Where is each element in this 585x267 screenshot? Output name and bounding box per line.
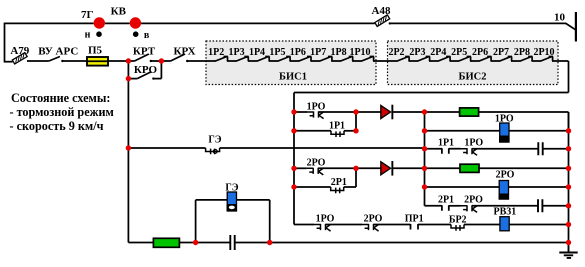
wire top row from left edge to KV button 1 xyxy=(5,22,94,24)
svg-text:ГЭ: ГЭ xyxy=(208,135,221,146)
contact 1R1 row D xyxy=(442,148,449,154)
wire row C coil to right bus xyxy=(509,130,569,132)
wire bus2 vertical xyxy=(424,112,426,206)
svg-text:БИС2: БИС2 xyxy=(459,72,487,83)
wire row D GE to bus2 xyxy=(220,147,425,149)
wire row C bus2 to coil 1RO xyxy=(425,130,500,132)
svg-text:н: н xyxy=(85,30,91,41)
wire row I left corner to resistor xyxy=(128,242,153,244)
breaker A79 xyxy=(12,53,27,64)
contact chain in BIS1 xyxy=(206,57,374,62)
lead dot after VU ARS xyxy=(61,60,63,62)
svg-text:КРТ: КРТ xyxy=(133,46,156,58)
svg-text:БИС1: БИС1 xyxy=(279,72,307,83)
svg-text:2Р7: 2Р7 xyxy=(493,47,509,58)
contact 2RO row G xyxy=(461,205,478,212)
resistor row E xyxy=(460,164,479,172)
wire row C contact to node xyxy=(344,130,356,132)
svg-text:7Г: 7Г xyxy=(81,9,94,21)
wire node vertical B-C xyxy=(355,112,357,131)
ground xyxy=(559,243,577,258)
diode VD2 xyxy=(381,162,391,175)
wire row F bus2 to coil 2RO xyxy=(425,186,500,188)
wire left edge vertical xyxy=(4,23,6,63)
svg-text:КВ: КВ xyxy=(111,6,127,18)
svg-text:ВУ АРС: ВУ АРС xyxy=(38,45,78,57)
button KV circle 1 (7G) xyxy=(94,17,105,28)
wire KRT left stub xyxy=(128,60,134,62)
wire row E diode to bus2 xyxy=(393,167,425,169)
wire row I node to right bus xyxy=(270,242,569,244)
wire GE loop top left xyxy=(196,199,228,201)
svg-text:1Р6: 1Р6 xyxy=(290,47,306,58)
wire P5 to node KRT xyxy=(108,60,129,62)
svg-text:1Р3: 1Р3 xyxy=(229,47,245,58)
svg-text:2РО: 2РО xyxy=(496,170,515,181)
wire slant into terminal 10 xyxy=(566,23,576,29)
wire row A to middle bus xyxy=(294,92,569,94)
svg-text:КРО: КРО xyxy=(134,64,158,76)
wire KRO left stub xyxy=(128,78,137,80)
capacitor row G xyxy=(538,199,542,212)
wire row D left bus to GE contact xyxy=(128,147,205,149)
switch VU ARS blade xyxy=(49,57,60,62)
block BIS2 (dotted box) xyxy=(388,41,559,85)
svg-text:1Р8: 1Р8 xyxy=(331,47,347,58)
wire row B contact to node xyxy=(319,111,357,113)
svg-text:1РО: 1РО xyxy=(307,102,326,113)
svg-text:2Р10: 2Р10 xyxy=(533,47,554,58)
svg-text:1Р1: 1Р1 xyxy=(329,121,345,132)
wire through P5 xyxy=(87,60,108,62)
svg-text:2Р1: 2Р1 xyxy=(438,195,454,206)
wire row E bus to 2RO contact xyxy=(294,167,307,169)
contact BR2 xyxy=(451,225,464,231)
lead dot after A48 xyxy=(389,22,391,24)
breaker A48 xyxy=(375,15,390,27)
wire middle bus vertical xyxy=(293,93,295,225)
svg-text:2РО: 2РО xyxy=(364,214,383,225)
svg-text:1Р7: 1Р7 xyxy=(310,47,326,58)
wire row E bus2 to resistor xyxy=(425,167,461,169)
wire node to KRX xyxy=(161,60,170,62)
wire row H to BR2 contact xyxy=(418,224,451,226)
svg-text:1РО: 1РО xyxy=(464,138,483,149)
svg-text:А48: А48 xyxy=(372,5,391,17)
contact 1RO row D xyxy=(461,148,478,155)
wire row G capacitor to right bus xyxy=(542,205,568,207)
wire left bus vertical xyxy=(127,79,129,243)
svg-text:1Р4: 1Р4 xyxy=(249,47,265,58)
svg-text:2РО: 2РО xyxy=(464,195,483,206)
wire KRO branch right vertical xyxy=(160,61,162,79)
diode VD1 xyxy=(381,105,391,118)
contact 2RO row E xyxy=(307,168,324,175)
wire row G bus2 corner to 2R1 hooks xyxy=(425,205,442,207)
svg-text:РВ31: РВ31 xyxy=(494,207,517,218)
lead dot after KRT xyxy=(150,60,152,62)
wire between BIS1 and BIS2 xyxy=(373,60,388,62)
coil 2RO xyxy=(499,181,508,200)
coil GE xyxy=(227,192,236,211)
wire row H BR2 to coil RV31 xyxy=(464,224,500,226)
wire A79 to VU ARS switch xyxy=(27,60,49,62)
lead dot after KRX xyxy=(186,60,188,62)
wire row C bus to 1R1 contact xyxy=(294,130,331,132)
contact 1RO row B xyxy=(307,111,324,118)
contact 1RO row H xyxy=(314,224,331,231)
button KV circle 2 xyxy=(130,17,141,28)
wire row D between contacts xyxy=(449,148,461,150)
svg-text:П5: П5 xyxy=(88,45,103,57)
svg-text:в: в xyxy=(144,30,150,41)
wire row D contact to capacitor xyxy=(472,148,538,150)
svg-text:КРХ: КРХ xyxy=(173,46,195,58)
svg-text:2Р6: 2Р6 xyxy=(472,47,488,58)
wire GE loop left vertical xyxy=(195,200,197,243)
wire KRO branch left vertical xyxy=(127,61,129,79)
svg-text:10: 10 xyxy=(554,12,566,24)
wire right vertical BIS2 down to row A xyxy=(568,61,570,93)
wire row I node to capacitor xyxy=(196,242,231,244)
svg-text:1Р10: 1Р10 xyxy=(349,47,370,58)
wire row D bus2 to 1R1 hooks xyxy=(425,148,442,150)
svg-text:2Р8: 2Р8 xyxy=(514,47,530,58)
wire row B diode to bus2 xyxy=(393,111,425,113)
wire row H bus corner to 1RO contact xyxy=(294,224,314,226)
contact 2RO row H xyxy=(362,224,379,231)
svg-text:2РО: 2РО xyxy=(307,157,326,168)
resistor row B xyxy=(460,108,479,116)
wire VU ARS to fuse P5 xyxy=(62,60,87,62)
svg-text:ПР1: ПР1 xyxy=(405,214,424,225)
wire row B right corner down xyxy=(568,112,570,131)
switch KRO blade xyxy=(137,72,151,79)
wire row I capacitor to node xyxy=(235,242,270,244)
svg-text:2Р2: 2Р2 xyxy=(388,47,404,58)
wire node vertical E-F xyxy=(355,168,357,187)
fuse P5 xyxy=(87,57,108,66)
switch KRT blade xyxy=(135,54,149,61)
wire row G contact to capacitor xyxy=(472,205,538,207)
wire GE loop right vertical xyxy=(269,200,271,243)
svg-text:2Р4: 2Р4 xyxy=(430,47,446,58)
wire KRX to BIS1 xyxy=(187,60,206,62)
wire row G between contacts xyxy=(449,205,461,207)
wire KRT to node xyxy=(151,60,162,62)
wire row F bus to 2R1 contact xyxy=(294,186,331,188)
wire row E resistor to right bus xyxy=(479,167,569,169)
svg-text:А79: А79 xyxy=(10,45,29,57)
wire row F coil to right bus xyxy=(509,186,569,188)
contact 2R1 row F xyxy=(331,187,344,193)
switch KRX blade xyxy=(171,54,185,61)
wire right bus vertical xyxy=(568,112,570,243)
contact GE xyxy=(206,148,220,154)
contact PR1 row H xyxy=(411,224,419,230)
wire row B resistor to right bus xyxy=(479,111,569,113)
wire row D capacitor to right bus xyxy=(543,148,569,150)
coil 1RO xyxy=(500,123,509,142)
lead dot after KRO xyxy=(152,77,154,79)
wire stub before breaker A79 xyxy=(5,61,13,63)
block BIS1 (dotted box) xyxy=(206,41,376,85)
wire top row between KV buttons xyxy=(105,22,130,24)
contact chain in BIS2 xyxy=(388,57,553,62)
wire row I resistor to node xyxy=(179,242,195,244)
button position dot n xyxy=(96,31,102,37)
svg-text:Состояние схемы:: Состояние схемы: xyxy=(11,91,110,105)
wire row B node to diode xyxy=(356,111,381,113)
resistor row I xyxy=(153,238,179,247)
svg-text:1Р2: 1Р2 xyxy=(208,47,224,58)
wire BIS2 exit to right xyxy=(552,60,569,62)
wire top row from A48 to terminal 10 xyxy=(390,22,566,24)
svg-text:1Р5: 1Р5 xyxy=(269,47,285,58)
wire row B bus2 to resistor xyxy=(425,111,460,113)
wire GE loop top right xyxy=(237,199,270,201)
svg-text:2Р5: 2Р5 xyxy=(451,47,467,58)
svg-text:БР2: БР2 xyxy=(449,214,467,225)
svg-text:1РО: 1РО xyxy=(316,214,335,225)
coil RV31 xyxy=(500,217,509,231)
capacitor row I xyxy=(230,235,234,250)
wire row E node to diode xyxy=(356,167,381,169)
button position dot v xyxy=(133,31,139,37)
wire KRO right stub xyxy=(153,78,161,80)
contact 1R1 row C xyxy=(331,131,344,137)
wire row H to PR1 hooks xyxy=(374,224,411,226)
svg-text:- тормозной режим: - тормозной режим xyxy=(10,105,114,119)
wire top row from KV button 2 to breaker A48 xyxy=(141,22,375,24)
wire row E contact to node xyxy=(318,167,356,169)
svg-text:1Р1: 1Р1 xyxy=(438,138,454,149)
contact 2R1 row G xyxy=(442,205,449,211)
wire row H to 2RO contact xyxy=(326,224,363,226)
junction dots xyxy=(126,58,131,63)
capacitor row D xyxy=(538,142,542,155)
wire row F contact to node corner xyxy=(344,186,356,188)
wire row B bus to 1RO contact xyxy=(294,111,307,113)
svg-text:2Р3: 2Р3 xyxy=(409,47,425,58)
wire row H coil to right bus xyxy=(509,224,568,226)
terminal 10 bar xyxy=(575,12,577,42)
svg-text:- скорость 9 км/ч: - скорость 9 км/ч xyxy=(10,119,104,133)
